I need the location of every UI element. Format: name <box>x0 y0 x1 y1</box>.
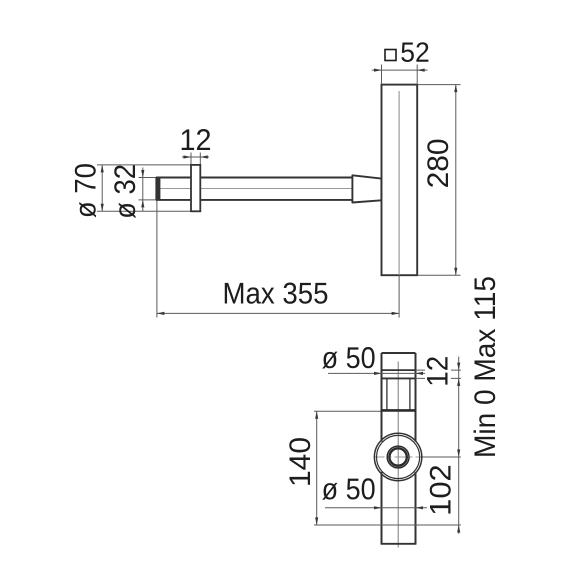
wall flange (rosette) <box>191 165 200 211</box>
dim 12 extension right (flange) <box>199 153 201 165</box>
horizontal pipe top edge <box>200 177 352 179</box>
svg-text:52: 52 <box>400 37 430 68</box>
arrow up to y525 <box>457 525 460 533</box>
dim Max355 arrow right <box>392 312 400 315</box>
dim 280 extension top <box>417 84 460 86</box>
pipe stub bottom edge <box>156 199 191 201</box>
dim ø70 extension top <box>97 164 191 166</box>
svg-text:Max 355: Max 355 <box>222 277 328 310</box>
svg-text:12: 12 <box>422 356 455 387</box>
dim ø32 extension bottom <box>139 199 158 201</box>
dim 12 line with tails <box>182 156 209 158</box>
arrow down to centerline y457 <box>457 450 460 458</box>
dim Max355 line <box>157 312 399 314</box>
dim sq52 arrow (points right) <box>374 69 382 72</box>
dim Max355 arrow left <box>157 312 165 315</box>
dim ø70 line <box>101 165 103 211</box>
pipe bottom edge <box>381 543 417 545</box>
vertical centerline <box>397 362 399 548</box>
svg-text:ø 32: ø 32 <box>109 164 142 219</box>
dim 280 extension bottom <box>417 274 460 276</box>
svg-text:ø 50: ø 50 <box>322 473 376 506</box>
pipe centerline <box>160 188 352 190</box>
dim ext line y378 right <box>416 377 461 379</box>
dim 12 arrow (points left to flange right) <box>200 155 208 158</box>
svg-text:280: 280 <box>422 138 455 188</box>
dim ø50 bottom line with tails <box>325 507 427 509</box>
svg-text:12: 12 <box>179 124 211 157</box>
dim ø70 extension bottom <box>97 210 191 212</box>
centerline extension to dim <box>421 456 461 458</box>
dim 140 arrow down <box>315 517 318 525</box>
flange lip top line <box>382 369 416 371</box>
dim Max355 extension right (body centerline continued) <box>398 275 400 317</box>
trap inner circle <box>387 446 409 468</box>
dim ø32 arrow (outside, points up to bottom edge) <box>141 200 144 208</box>
dim 12 extension left (flange) <box>190 153 192 165</box>
label square symbol <box>385 50 396 61</box>
dim sq52 extension left <box>381 65 383 84</box>
body centerline <box>398 91 400 275</box>
mask behind 12 right <box>425 357 451 384</box>
dim 280 line <box>455 85 457 276</box>
dim sq52 extension right <box>416 65 418 84</box>
dim ø32 line with tails <box>142 168 144 212</box>
arrow up to y378 <box>457 378 460 386</box>
dim 140 top extension <box>314 410 381 412</box>
dim ø50 top line with tails <box>328 372 425 374</box>
pipe left edge upper <box>381 353 383 442</box>
dim Max355 extension left <box>156 201 158 318</box>
pipe stub top edge <box>156 177 191 179</box>
pipe right edge upper <box>415 353 417 442</box>
trap circle horizontal centerline (dashed) <box>374 456 425 458</box>
dim 140 arrow up <box>315 411 318 419</box>
horizontal pipe bottom edge <box>200 199 352 201</box>
dim 140 line <box>316 411 318 525</box>
arrow down to y370 <box>457 363 460 371</box>
dim ø50 bottom arrow (points right) <box>374 506 382 509</box>
vertical square body <box>382 85 418 276</box>
pipe left edge lower <box>381 472 383 544</box>
pipe stub end cap <box>155 177 160 200</box>
svg-text:ø 70: ø 70 <box>69 163 102 218</box>
svg-text:140: 140 <box>284 437 317 487</box>
dim ø70 arrow down <box>101 204 104 212</box>
thread line right <box>409 378 411 410</box>
svg-text:ø 50: ø 50 <box>322 342 376 375</box>
dim sq52 line with tails <box>372 69 428 71</box>
shared right dim line (12 / Min0Max115 / 102) <box>458 357 460 534</box>
dim 280 arrow down <box>454 268 457 276</box>
joint line at pipe bottom sleeve / dim extension <box>314 524 461 526</box>
trap outer ring inner circle <box>377 435 420 478</box>
shoulder thick line <box>381 409 417 412</box>
dim ø70 arrow up <box>101 165 104 173</box>
pipe top edge <box>382 352 416 354</box>
thread line left <box>386 378 388 410</box>
pipe right edge lower <box>415 472 417 544</box>
dim 12 arrow (points right to flange left) <box>184 155 192 158</box>
flange lip bottom line <box>382 377 416 379</box>
dim ø50 bottom arrow (points left) <box>416 506 424 509</box>
dim ø50 top arrow (points left to right edge) <box>416 372 424 375</box>
svg-text:102: 102 <box>424 464 457 515</box>
svg-text:Min 0 Max 115: Min 0 Max 115 <box>469 276 502 458</box>
dim ø32 extension top <box>139 177 158 179</box>
dim 280 arrow up <box>454 85 457 93</box>
dim ø50 top arrow (points right to left edge) <box>374 372 382 375</box>
dim ø32 arrow (outside, points down to top edge) <box>141 170 144 178</box>
trap outer circle <box>374 433 421 480</box>
dim ext line y370 right <box>416 369 461 371</box>
taper connector nut <box>352 175 381 202</box>
dim sq52 arrow (points left) <box>417 69 425 72</box>
trap inner bold circle <box>389 448 406 465</box>
